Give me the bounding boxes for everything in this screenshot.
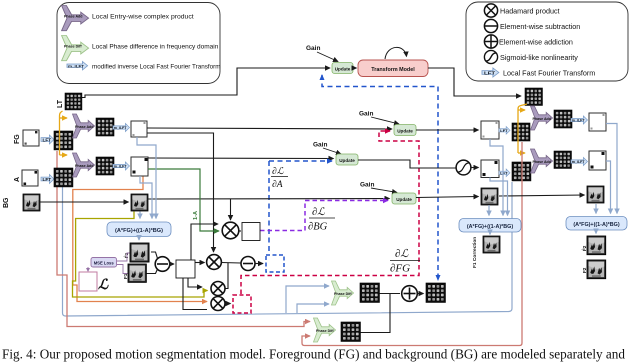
blue branch to phase diff lower prong — [297, 304, 329, 313]
svg-text:Phase Add: Phase Add — [533, 117, 551, 121]
wire subtraction2 to dashed blue box — [255, 263, 263, 265]
wire phase diff grid2 up join to addition — [361, 294, 391, 333]
svg-text:1-A: 1-A — [193, 211, 199, 220]
dashed blue dL/dA into Update3 — [269, 160, 332, 162]
box Update1 — [332, 63, 353, 74]
subtraction circle 2 — [241, 257, 255, 271]
box A right output — [589, 151, 606, 170]
grid A right — [512, 162, 531, 181]
grid FG left — [54, 131, 73, 150]
LFT arrow FG right — [499, 127, 510, 135]
wire BG right to far image — [499, 195, 585, 196]
box loss L — [79, 272, 97, 291]
svg-text:∂ℒ: ∂ℒ — [312, 207, 325, 218]
box bg-grad — [242, 223, 260, 241]
yellow wire right LT down with arrows — [518, 104, 527, 153]
svg-text:Update: Update — [335, 67, 351, 72]
dashed blue error box — [266, 255, 284, 272]
grid after phase diff 1 — [360, 283, 379, 302]
wire addition to gradient grid — [418, 293, 424, 295]
label dL/dBG — [308, 207, 335, 233]
blue wire A right box to composite label right-mid — [490, 178, 508, 216]
image F1 — [128, 264, 146, 282]
box Transform Model — [358, 60, 428, 77]
svg-text:Phase Add: Phase Add — [75, 164, 93, 168]
box FG output — [131, 121, 147, 137]
image BG far right — [587, 186, 604, 203]
box FG right output — [589, 113, 606, 131]
dashed blue arrowheads — [320, 74, 325, 80]
legend hadamard symbol — [484, 4, 497, 17]
phase add glyph right A row — [530, 149, 552, 173]
blue branch to phase diff upper prong — [286, 286, 329, 313]
grid after phase add A — [96, 157, 114, 175]
phase add glyph right FG row — [530, 106, 552, 130]
hadamard 1-A circle — [222, 222, 239, 239]
legend phase add glyph — [62, 6, 89, 31]
grid after right phase add FG — [554, 110, 572, 128]
image F2 — [587, 260, 606, 279]
wire Update3 to sigmoid — [358, 160, 456, 168]
box Update2 — [394, 125, 416, 136]
wire FG output top line to Update2 — [147, 128, 392, 129]
grid A left — [54, 168, 73, 187]
grid after phase diff 2 — [341, 322, 360, 341]
blue wire BG warped down to composite label — [139, 212, 141, 219]
image BG warped — [131, 194, 148, 211]
blue arrow to F2hat image — [595, 230, 597, 234]
grid FG right — [512, 123, 530, 141]
wire FG output bottom line down to hadamard A — [147, 133, 214, 252]
svg-text:Element-wise addiction: Element-wise addiction — [499, 38, 573, 47]
legend LFT glyph — [482, 68, 499, 77]
purple wire MSE to F1 — [117, 265, 128, 274]
label dL/dA — [271, 166, 288, 190]
wire sigmoid to A right box — [471, 167, 479, 169]
phase add glyph FG row — [72, 114, 94, 138]
svg-text:Phase Diff: Phase Diff — [334, 292, 352, 296]
wire BG warped to Update4 — [148, 198, 390, 201]
svg-text:A: A — [14, 177, 21, 182]
label composite right-mid — [459, 219, 521, 233]
wire Gain2 arrow — [371, 117, 399, 124]
subtraction circle 1 — [155, 257, 170, 272]
svg-text:F1: F1 — [123, 273, 128, 279]
svg-text:LT: LT — [57, 99, 64, 108]
label composite left (A*FG)+((1-A)*BG) — [107, 222, 171, 237]
sigmoid nonlinearity circle — [456, 160, 471, 175]
wire phase diff grid1 to addition — [380, 293, 401, 295]
wire Gain3 arrow — [323, 148, 341, 154]
addition circle — [402, 286, 418, 302]
box Update3 — [336, 154, 358, 165]
image BG input — [23, 194, 40, 211]
label dL/dFG — [390, 248, 420, 275]
blue arrow to F1 correction image — [489, 232, 491, 235]
blue wire FG right box to composite label right-mid — [490, 139, 503, 216]
svg-text:(A*FG)+((1-A)*BG): (A*FG)+((1-A)*BG) — [573, 222, 619, 228]
box FG input — [23, 130, 39, 146]
svg-text:Sigmoid-like nonlinearity: Sigmoid-like nonlinearity — [500, 53, 578, 62]
wire junction down to hadamard C — [183, 278, 207, 310]
svg-text:Update: Update — [339, 158, 355, 163]
svg-text:Gain: Gain — [313, 142, 327, 149]
legend box left — [57, 3, 220, 84]
olive wire BG warped to hadamard B — [73, 212, 208, 298]
wire junction up to hadamard 1-A — [191, 224, 218, 260]
wire LT to Update1 — [82, 68, 330, 98]
blue loop A spectra bottom — [63, 182, 513, 316]
svg-text:Local Entry-wise complex produ: Local Entry-wise complex product — [92, 14, 194, 21]
wire subtraction1 to junction box — [170, 263, 174, 265]
wire hadamard B up join — [225, 263, 228, 289]
svg-text:Gain: Gain — [306, 45, 320, 52]
blue wire BG right image down — [488, 205, 490, 216]
svg-text:Element-wise subtraction: Element-wise subtraction — [500, 22, 580, 31]
box FG right input — [481, 121, 499, 139]
wire hadamard C to dashed red box — [225, 303, 231, 305]
blue wire FG right output down to composite far right — [606, 124, 617, 214]
legend sigmoid symbol — [484, 50, 497, 63]
svg-text:Phase Add: Phase Add — [64, 15, 82, 19]
m_iLFT arrow A row — [113, 162, 130, 170]
wire Gain1 arrow — [317, 52, 338, 62]
legend m_iLFT glyph — [67, 62, 88, 70]
legend subtraction symbol — [484, 19, 497, 32]
LFT arrow A right — [499, 169, 510, 177]
phase add glyph A row — [72, 153, 94, 177]
box A input — [22, 170, 38, 186]
svg-text:MSE Loss: MSE Loss — [94, 261, 115, 266]
purple arrow MSE down to loss box — [87, 267, 89, 270]
image F1 correction — [483, 236, 500, 253]
yellow wire from LT grid down with arrows to phase-add rows — [60, 111, 68, 155]
legend box right — [466, 2, 628, 81]
wire A output to Update3 — [148, 157, 334, 160]
hadamard B circle — [211, 282, 225, 296]
box A right input — [481, 160, 499, 178]
svg-text:FG: FG — [14, 134, 21, 144]
wire hadamard 1-A to bg-grad box — [239, 230, 241, 232]
svg-text:Phase Diff: Phase Diff — [316, 329, 334, 333]
label composite far right — [566, 217, 627, 231]
svg-text:Local Fast Fourier Transform: Local Fast Fourier Transform — [503, 69, 595, 78]
blue wire A right output down to composite far right — [606, 161, 611, 214]
orange wire A output to hadamard C — [73, 176, 207, 302]
dashed red gradient path into Update2 — [241, 131, 419, 294]
blue wire FG output down to composite label — [137, 137, 156, 219]
dashed red error box — [233, 295, 251, 313]
box MSE Loss — [91, 258, 117, 268]
wire junction right to hadamard A — [195, 262, 205, 264]
svg-text:∂ℒ: ∂ℒ — [272, 166, 285, 177]
wire Transform Model to right LT grid — [428, 68, 521, 96]
svg-text:∂A: ∂A — [272, 180, 283, 190]
blue wire BG far image down — [595, 204, 597, 214]
phase diff glyph 2 — [313, 318, 335, 342]
dashed blue feedback from Update1 down to FG gradient grid — [322, 75, 438, 277]
svg-text:(A*FG)+((1-A)*BG): (A*FG)+((1-A)*BG) — [115, 228, 163, 234]
LFT arrow FG row — [41, 135, 54, 144]
salmon wire FG right spectrum loop to phase diff 2 — [302, 142, 522, 346]
box error junction — [176, 260, 195, 278]
wire branch down into hadamard 1-A — [230, 199, 232, 220]
hadamard C circle — [211, 297, 225, 311]
m_iLFT arrow right FG — [571, 116, 588, 124]
svg-text:Gain: Gain — [360, 182, 374, 189]
svg-text:Update: Update — [397, 129, 413, 134]
svg-text:modified inverse Local Fast Fo: modified inverse Local Fast Fourier Tran… — [92, 64, 220, 71]
m_iLFT arrow right A — [571, 158, 588, 166]
image F1hat — [130, 243, 149, 262]
svg-text:ℒ: ℒ — [98, 278, 109, 293]
svg-text:F2: F2 — [582, 267, 587, 273]
wire hadamard A to subtraction2 — [222, 262, 241, 265]
salmon wire FG left spectrum to phase diff 2 — [57, 151, 310, 327]
grid LT right — [525, 88, 542, 105]
svg-text:Update: Update — [396, 197, 412, 202]
dashed blue dL/dA down to error box — [268, 161, 270, 254]
phase diff glyph 1 — [331, 281, 353, 305]
image F2hat — [587, 236, 606, 255]
box A output — [131, 157, 148, 176]
svg-text:Hadamard product: Hadamard product — [500, 7, 560, 16]
svg-text:BG: BG — [3, 197, 10, 208]
svg-text:∂ℒ: ∂ℒ — [395, 248, 409, 260]
grid after right phase add A — [554, 151, 571, 168]
grid LT left — [65, 93, 82, 110]
svg-text:Phase Add: Phase Add — [75, 125, 93, 129]
wire self-loop arc on Transform Model — [385, 47, 407, 59]
wire BG input to BG warped image — [40, 201, 129, 203]
svg-text:Gain: Gain — [359, 111, 373, 118]
svg-text:∂BG: ∂BG — [308, 222, 328, 233]
image BG right warped — [481, 188, 498, 205]
wires F1hat and F1 into subtraction — [151, 252, 158, 259]
box Update4 — [392, 193, 416, 204]
m_iLFT arrow FG row — [113, 124, 130, 132]
dashed purple gradient path into Update4 — [260, 201, 388, 231]
wire junction down to hadamard B — [188, 278, 202, 287]
blue wire A output down to composite label — [140, 176, 152, 219]
blue arrow composite to F1hat image — [138, 237, 140, 241]
wire Gain4 arrow — [371, 188, 397, 193]
wire Update4 to BG right image — [416, 197, 479, 198]
hadamard A circle — [207, 255, 222, 270]
svg-text:∂FG: ∂FG — [390, 263, 410, 275]
wire Update1 to Transform Model — [353, 67, 357, 69]
wire Update2 to FG right box — [416, 129, 479, 131]
legend phase diff glyph — [62, 36, 89, 61]
svg-text:Phase Diff: Phase Diff — [64, 45, 82, 49]
LFT arrow A row — [41, 175, 54, 184]
grid after phase add FG — [96, 118, 114, 136]
legend addition symbol — [484, 35, 497, 48]
svg-text:F̂2: F̂2 — [581, 245, 587, 251]
svg-text:Transform Model: Transform Model — [371, 67, 415, 73]
svg-text:Phase Add: Phase Add — [533, 160, 551, 164]
svg-text:F1 Correction: F1 Correction — [472, 237, 478, 268]
purple wire MSE to F1hat — [117, 253, 130, 261]
svg-text:Fig. 4: Our proposed motion se: Fig. 4: Our proposed motion segmentation… — [2, 347, 625, 362]
svg-text:Local Phase difference in freq: Local Phase difference in frequency doma… — [92, 44, 219, 51]
green wire 1-A from A output — [148, 169, 219, 231]
grid FG gradient — [426, 283, 445, 302]
svg-text:(A*FG)+((1-A)*BG): (A*FG)+((1-A)*BG) — [467, 224, 513, 230]
